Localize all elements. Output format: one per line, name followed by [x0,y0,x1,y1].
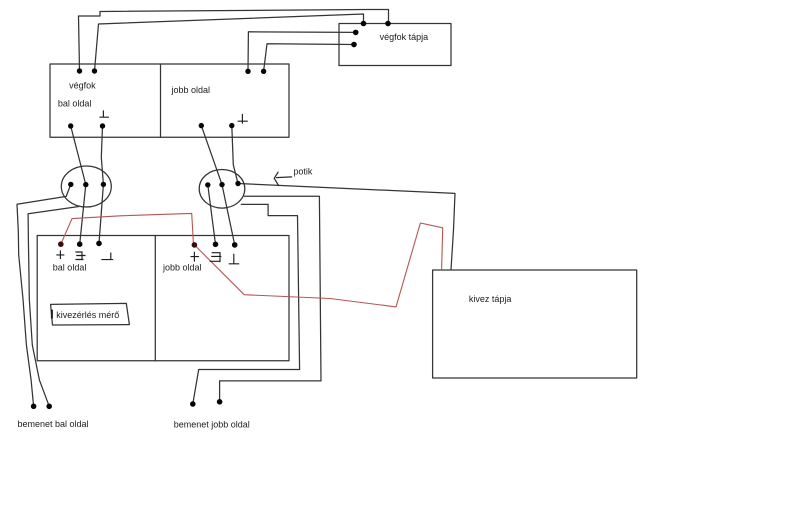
wire left pot bottom to bemenet bal input2 [28,207,79,407]
svg-text:végfok: végfok [69,81,96,91]
potentiometer left ellipse [61,166,111,207]
junction dot végfok bal out2 [100,123,105,128]
svg-text:kivezérlés mérő: kivezérlés mérő [56,310,119,320]
junction dot végfok bal out1 [68,123,73,128]
wire végfok jobb top pin1 to végfok tápja inner pin1 [248,32,356,72]
tick mark in kivezérlés label [51,311,53,318]
box kivezérlés mérő label frame [51,303,130,325]
junction dot meter jobb gnd [232,242,238,248]
ground symbol meter jobb [229,254,238,263]
svg-text:bemenet jobb oldal: bemenet jobb oldal [174,420,250,430]
junction dot right pot pin2 [219,182,224,187]
junction dot right pot pin3 [235,181,240,186]
svg-text:bal oldal: bal oldal [58,99,92,109]
junction dot meter jobb plus [192,242,198,248]
E symbol meter bal [76,252,85,260]
junction dot meter jobb E [213,242,219,248]
wire végfok bal top pin2 to végfok tápja top pin1 [95,14,364,71]
junction dot végfok bal top2 [92,68,97,73]
svg-text:jobb oldal: jobb oldal [171,85,211,95]
box végfok tápja [339,24,451,66]
svg-text:jobb oldal: jobb oldal [162,263,202,273]
junction dot meter bal plus [58,241,64,247]
red wire meter jobb + to kivez tápja [194,223,442,307]
svg-text:bal oldal: bal oldal [53,263,87,273]
potentiometer right ellipse [199,170,245,209]
E symbol meter jobb [210,253,221,262]
junction dot végfok jobb out2 [229,123,234,128]
junction dot végfok bal top1 [77,68,82,73]
wire right pot pin3 to kivez tápja (potik line) [238,184,455,270]
plus symbol meter bal [57,251,64,258]
junction dot végfok tápja inner1 [353,30,359,36]
junction dot meter bal E [77,241,83,247]
ground symbol végfok bal [100,111,108,117]
box végfok (amplifier) [50,64,289,137]
svg-text:végfok tápja: végfok tápja [380,32,429,42]
svg-text:potik: potik [293,167,313,177]
wire bemenet jobb input2 around box to right pot right edge [220,196,321,402]
junction dot left pot pin3 [101,182,106,187]
wire végfok jobb top pin2 to végfok tápja inner pin2 [264,44,354,72]
wire végfok jobb out1 to right pot pin2 [201,126,222,185]
junction dot végfok tápja inner2 [351,42,357,48]
svg-text:kivez tápja: kivez tápja [469,294,512,304]
potik arrow pointer [274,172,291,185]
wire right pot pin1 to meter jobb pin2 [208,185,216,244]
box kivez tápja [433,270,637,378]
svg-text:bemenet bal oldal: bemenet bal oldal [18,419,89,429]
wire bemenet jobb input1 around box to right pot lower edge [193,204,300,404]
wire végfok bal out2 to left pot pin3 [101,126,103,184]
wire végfok bal out1 to left pot wiper [71,126,86,185]
junction dot bemenet bal 1 [31,404,37,410]
red wire meter bal + to meter jobb + [61,213,194,245]
junction dot bemenet jobb 1 [190,401,196,407]
junction dot meter bal gnd [96,241,102,247]
junction dot végfok jobb top1 [245,69,250,74]
wire left pot pin3 to meter bal pin3 [99,184,103,243]
junction dot right pot pin1 [205,182,210,187]
wire végfok jobb out2 to right pot pin3 [232,126,238,184]
ground symbol meter bal [102,253,113,260]
box kivezérlés mérő unit (lower box) [37,236,289,361]
wire végfok bal top pin1 to végfok tápja top pin2 [79,10,389,72]
plus symbol meter jobb [191,252,198,261]
wire right pot pin2 to meter jobb pin3 [222,185,235,245]
junction dot végfok jobb top2 [261,69,266,74]
wire left pot pin1 to bemenet bal input1 [17,185,71,407]
junction dot végfok tápja top1 [361,21,367,27]
divider lower box [154,236,156,361]
junction dot left pot pin2 [83,182,88,187]
junction dot bemenet bal 2 [46,404,52,410]
junction dot végfok jobb out1 [199,123,204,128]
junction dot végfok tápja top2 [385,21,391,27]
divider végfok box [160,64,162,137]
wire left pot pin2 to meter bal pin2 [80,185,86,245]
junction dot left pot pin1 [68,182,73,187]
ground symbol végfok jobb [238,115,247,124]
junction dot bemenet jobb 2 [217,399,223,405]
